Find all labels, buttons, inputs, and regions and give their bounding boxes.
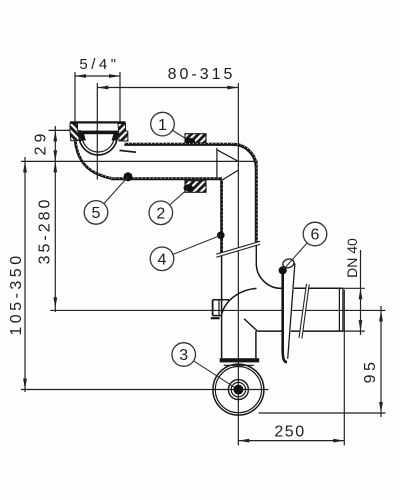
dimension DN40 — [343, 238, 365, 335]
svg-text:6: 6 — [311, 227, 320, 244]
dimension 95 — [362, 306, 383, 417]
dimension 80-315 — [97, 66, 238, 89]
compression nut 1 — [185, 134, 206, 145]
tee upper fillet — [256, 263, 281, 288]
tee right wall below branch — [255, 331, 257, 358]
dimension 250 — [238, 424, 344, 443]
svg-text:5/4": 5/4" — [79, 56, 119, 73]
svg-text:3: 3 — [179, 347, 188, 364]
wire: extension x=120 (5/4 right) — [119, 72, 121, 121]
vertical pipe left wall — [220, 179, 223, 252]
callout circle 4 — [150, 235, 221, 270]
svg-text:29: 29 — [33, 130, 50, 156]
break marks outlet pipe — [299, 284, 309, 339]
outlet top edge — [278, 287, 343, 289]
outlet pipe end face — [338, 288, 340, 331]
callout circle 5 — [84, 177, 128, 224]
wall rosette item6 — [279, 258, 296, 363]
svg-text:95: 95 — [362, 359, 379, 384]
pipe end inside socket — [216, 148, 218, 180]
svg-text:105-350: 105-350 — [8, 252, 25, 335]
inlet dome gasket — [79, 136, 117, 155]
collar fitting on left of pipe — [211, 300, 229, 318]
dimension 5/4" — [75, 56, 120, 78]
cleanout cap circles item3 — [213, 364, 264, 415]
svg-text:250: 250 — [274, 424, 305, 441]
wire: extension line y=389.5 (cap axis) — [21, 389, 269, 391]
horizontal pipe top wall — [124, 143, 233, 146]
marker dot item 4 — [217, 232, 225, 240]
dimension 105-350 — [8, 157, 27, 392]
wire: extension x=75 (5/4 left) — [74, 72, 76, 121]
compression nut 2 — [184, 181, 207, 193]
inlet elbow outer curve — [75, 141, 114, 179]
break marks vertical pipe — [216, 241, 260, 257]
callout circle 2 — [149, 190, 187, 225]
horizontal pipe bottom wall — [111, 177, 222, 180]
svg-text:80-315: 80-315 — [168, 66, 236, 83]
svg-text:2: 2 — [156, 206, 165, 223]
wire: extension line y=310.45 (outlet axis) — [50, 309, 385, 311]
elbow outer arc top right — [233, 144, 256, 167]
inlet seat line — [120, 150, 137, 152]
inlet union nut 5/4 — [70, 122, 128, 141]
dimension 29 and 35-280 shared line — [33, 126, 58, 312]
outlet bottom edge — [257, 330, 343, 332]
wire: bore/axis line x=238.35 — [237, 83, 239, 446]
chamber shoulder curve — [222, 288, 257, 313]
wire: extension line y=413 (95 bottom) — [259, 412, 386, 414]
svg-text:4: 4 — [158, 252, 167, 269]
socket chamfer upper — [217, 150, 238, 162]
svg-text:5: 5 — [92, 205, 101, 222]
cap flange — [220, 358, 260, 362]
svg-text:1: 1 — [158, 117, 167, 134]
svg-text:DN 40: DN 40 — [344, 238, 360, 278]
wire: extension x=344.3 (250 right) — [343, 290, 345, 446]
wire: extension line y=130.4 (29 top) — [49, 129, 71, 131]
texture ticks on pipe walls — [76, 141, 257, 253]
wire: extension line y=161.4 (pipe axis) — [21, 160, 258, 162]
vertical pipe right wall — [255, 168, 258, 243]
callout circle 6 — [284, 222, 327, 269]
outlet inner chamfer — [244, 319, 257, 331]
cone seal wedges — [78, 132, 87, 141]
marker dot item 5 — [124, 172, 133, 181]
callout circle 3 — [172, 343, 234, 387]
svg-text:35-280: 35-280 — [37, 197, 54, 265]
wire: inlet axis x=97.3 — [96, 83, 98, 180]
socket chamfer lower — [222, 170, 239, 180]
callout circle 1 — [151, 112, 186, 138]
